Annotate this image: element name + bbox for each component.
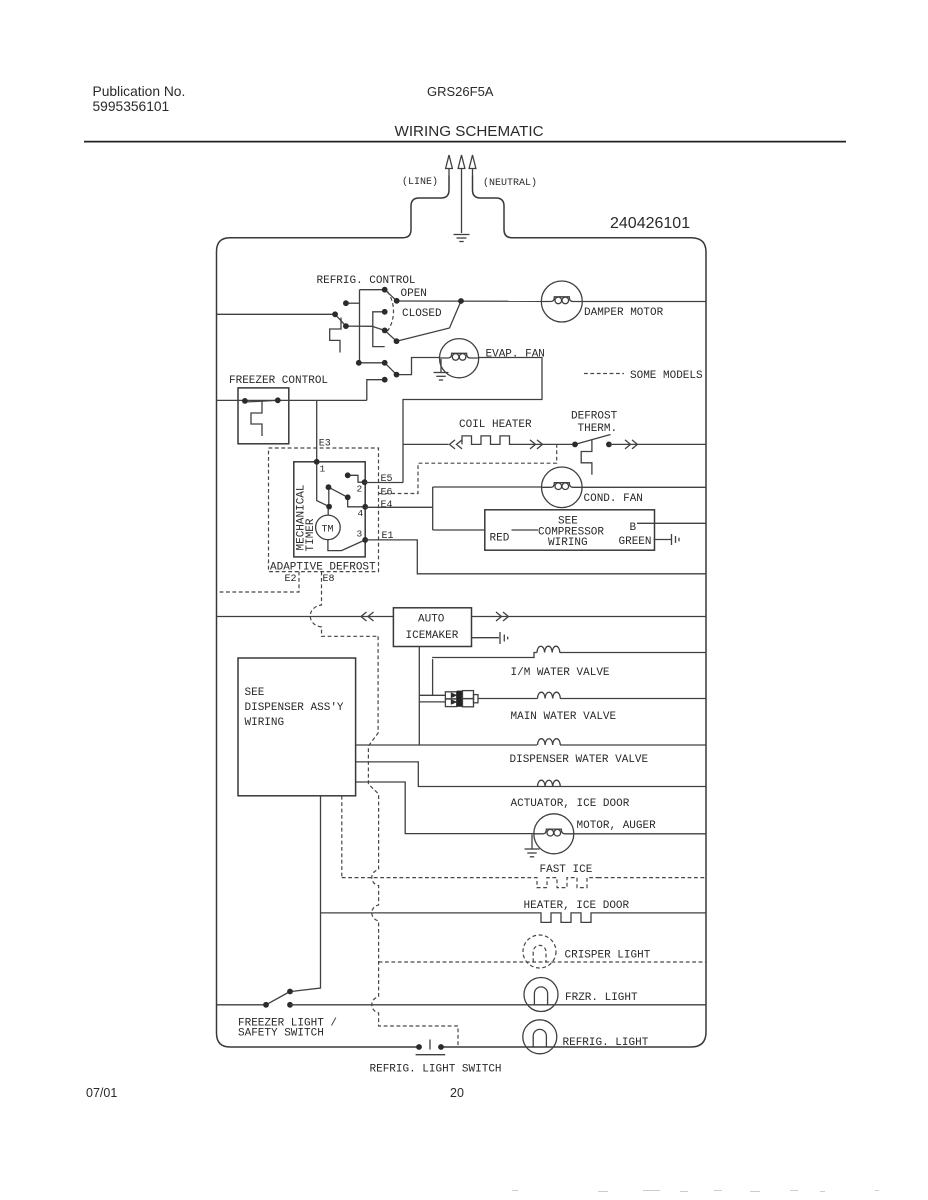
plug prong LINE (446, 155, 453, 176)
wire: timer pole from terminal 1 (317, 462, 329, 507)
motor: evaporator fan (440, 339, 479, 378)
wire: left column from dispenser box to safety switch (291, 796, 321, 992)
svg-text:ADAPTIVE DEFROST: ADAPTIVE DEFROST (270, 562, 376, 574)
wire: common to lower contact stub (359, 362, 385, 364)
wire: actuator to neutral (537, 786, 706, 788)
svg-text:GREEN: GREEN (619, 536, 652, 548)
svg-text:240426101: 240426101 (610, 215, 690, 232)
svg-text:OPEN: OPEN (401, 288, 427, 300)
svg-text:FREEZER CONTROL: FREEZER CONTROL (229, 375, 328, 387)
svg-text:MOTOR, AUGER: MOTOR, AUGER (577, 820, 657, 832)
wire: heater ice door bus (321, 912, 540, 914)
wire: freezer control bus (217, 399, 367, 401)
motor: condenser fan (542, 467, 583, 508)
wire: ground pin lead (461, 176, 463, 234)
svg-text:4: 4 (358, 508, 364, 519)
wire: I/M valve drop to connector (432, 659, 434, 695)
svg-text:SOME MODELS: SOME MODELS (630, 370, 703, 382)
wire: B compressor to neutral (637, 522, 706, 524)
svg-text:MAIN WATER VALVE: MAIN WATER VALVE (511, 711, 617, 723)
connector: water valve plug (445, 691, 478, 707)
svg-text:I/M WATER VALVE: I/M WATER VALVE (511, 667, 610, 679)
wire: dispenser valve to neutral (560, 744, 706, 746)
wire: arm to terminal 4 (348, 497, 366, 507)
wire: common top stub (360, 289, 385, 291)
wire: enclosure trunk left+top with plug notch (217, 176, 450, 1048)
svg-text:CRISPER LIGHT: CRISPER LIGHT (565, 950, 651, 962)
solenoid: I/M water valve (432, 646, 562, 657)
wire: refrig control contact row (346, 326, 385, 330)
ground: power cord earth ground (454, 235, 470, 242)
thermostat: freezer control box (238, 388, 289, 444)
svg-text:2: 2 (357, 484, 363, 495)
wire E5: terminal 2 to coil heater riser (365, 482, 403, 484)
node: defrost therm terminals (572, 442, 612, 448)
wire: enclosure trunk right+top with plug notch (441, 176, 706, 1048)
timer motor TM (316, 507, 366, 551)
switch arm: evap fan feed (385, 363, 397, 375)
svg-text:TM: TM (322, 525, 334, 536)
box: see compressor wiring (485, 510, 655, 550)
wire: upper contact stub (346, 302, 360, 304)
ground: icemaker (500, 632, 508, 644)
svg-text:07/01: 07/01 (86, 1086, 117, 1100)
svg-text:WIRING SCHEMATIC: WIRING SCHEMATIC (395, 123, 544, 140)
resistor: fast ice heater (dashed) (534, 878, 598, 888)
svg-text:REFRIG. LIGHT: REFRIG. LIGHT (563, 1037, 649, 1049)
svg-text:Publication No.: Publication No. (93, 84, 186, 99)
wire: connector to main water valve (478, 698, 536, 700)
svg-text:AUTO: AUTO (418, 614, 445, 626)
wire: damper motor to neutral bus (582, 301, 706, 303)
svg-text:DEFROST: DEFROST (571, 411, 618, 423)
wire: heater to neutral (599, 912, 706, 914)
wire E8 (dashed): with hop over icemaker feed (310, 572, 378, 637)
wire E4: terminal 4 to condenser fan / compressor (365, 487, 433, 530)
wire: lower contact to freezer-control bus (367, 380, 385, 401)
wire: evap fan return (403, 358, 542, 483)
svg-text:GRS26F5A: GRS26F5A (427, 84, 494, 99)
plug prong NEUTRAL (469, 155, 476, 176)
node: refrig control terminals (332, 287, 464, 383)
wire: I/M valve to neutral (562, 652, 706, 654)
wire: GREEN compressor ground lead (654, 539, 672, 541)
wire: defrost therm to neutral (609, 443, 706, 445)
wire: cond fan to neutral (582, 486, 706, 488)
connector chevrons defrost right (625, 440, 638, 449)
resistor: heater ice door (539, 913, 599, 923)
switch arm: refrig control input (335, 314, 346, 326)
wire: auger motor feed from dispenser box (356, 782, 534, 834)
solenoid: dispenser water valve (538, 739, 561, 745)
svg-text:(LINE): (LINE) (402, 176, 438, 188)
legend dashed sample (584, 373, 624, 375)
svg-text:SAFETY SWITCH: SAFETY SWITCH (238, 1028, 324, 1040)
wire: RED compressor feed (433, 529, 538, 531)
connector chevrons left (450, 440, 463, 449)
svg-text:DAMPER MOTOR: DAMPER MOTOR (584, 307, 664, 319)
cam arc (dashed) (388, 292, 394, 332)
wire E6 (dashed): some models defrost bypass (379, 445, 557, 494)
label AUTO ICEMAKER (406, 614, 459, 643)
connector chevrons icemaker right (496, 612, 509, 621)
wire: bus to timer terminal 1 (316, 400, 318, 461)
box: auto icemaker (393, 608, 471, 647)
solenoid: main water valve (536, 692, 560, 698)
svg-text:WIRING: WIRING (245, 717, 285, 729)
box: see dispenser ass'y wiring (238, 658, 356, 796)
svg-text:DISPENSER WATER VALVE: DISPENSER WATER VALVE (510, 754, 649, 766)
svg-text:THERM.: THERM. (578, 423, 618, 435)
wire: cond fan feed (433, 486, 542, 488)
wire: actuator feed from dispenser box (356, 762, 537, 787)
wire: main valve to neutral (560, 698, 706, 700)
ground: evap fan (434, 359, 449, 380)
solenoid: actuator ice door (538, 780, 561, 786)
svg-text:(NEUTRAL): (NEUTRAL) (483, 177, 537, 189)
svg-text:ICEMAKER: ICEMAKER (406, 630, 459, 642)
svg-text:TIMER: TIMER (305, 518, 317, 551)
node: freezer control terminals (242, 397, 281, 403)
svg-text:E8: E8 (323, 574, 335, 585)
plug prong center (ground pin) (458, 155, 465, 176)
svg-text:ACTUATOR, ICE DOOR: ACTUATOR, ICE DOOR (511, 798, 630, 810)
label FREEZER LIGHT / SAFETY SWITCH (238, 1018, 337, 1040)
node: safety switch terminals (263, 989, 293, 1008)
sensor capillary: defrost thermostat (581, 440, 592, 475)
wire: icemaker to neutral (472, 616, 707, 618)
wire: freezer light feed (217, 1004, 267, 1006)
wire: closed path diagonal to damper junction (397, 301, 462, 341)
label SEE DISPENSER ASS'Y WIRING (245, 687, 344, 729)
ground: auger motor (525, 835, 540, 857)
svg-text:FAST ICE: FAST ICE (540, 864, 593, 876)
switch arm: freezer light / safety switch (266, 992, 290, 1005)
svg-text:CLOSED: CLOSED (402, 308, 442, 320)
wire: damper feed with junction (397, 300, 542, 302)
svg-text:EVAP. FAN: EVAP. FAN (486, 349, 545, 361)
long dashed vertical: some-models harness (368, 636, 458, 1046)
svg-text:5995356101: 5995356101 (93, 99, 170, 114)
wire: refrig control common vertical (359, 290, 361, 363)
svg-text:3: 3 (357, 529, 363, 540)
motor: damper motor M1 (541, 281, 582, 322)
switch arm: to OPEN contact (385, 290, 397, 301)
switch arm: timer contact (329, 487, 348, 497)
wire: to defrost thermostat (520, 443, 575, 445)
svg-text:HEATER, ICE DOOR: HEATER, ICE DOOR (524, 900, 630, 912)
label SEE COMPRESSOR WIRING (538, 516, 604, 550)
lamp: refrigerator light (523, 1020, 557, 1054)
wire: CLOSED contact link (385, 330, 397, 341)
wire: crisper light bus (dashed) (379, 961, 706, 963)
sensor capillary: freezer control (251, 402, 262, 437)
wire: icemaker output down to connector and dispenser valve net (419, 647, 445, 746)
timer box: mechanical timer (294, 462, 365, 557)
wire: auger motor to neutral (574, 833, 706, 835)
svg-text:E2: E2 (285, 574, 297, 585)
node: timer terminals (314, 459, 368, 543)
svg-text:FRZR. LIGHT: FRZR. LIGHT (565, 992, 638, 1004)
svg-text:COND. FAN: COND. FAN (584, 493, 643, 505)
wire E2 (dashed): timer to line bus (218, 572, 299, 592)
svg-text:1: 1 (320, 464, 326, 475)
ground: compressor chassis (672, 534, 680, 545)
svg-text:RED: RED (490, 533, 510, 545)
wire: to evap fan (397, 358, 440, 375)
switch: refrig light switch (416, 1040, 446, 1055)
svg-text:REFRIG. CONTROL: REFRIG. CONTROL (317, 275, 416, 287)
wire: dispenser valve feed (356, 744, 537, 746)
svg-text:20: 20 (450, 1086, 464, 1100)
wire: icemaker feed from line bus (217, 616, 394, 618)
connector chevrons icemaker left (361, 612, 374, 621)
switch arm: freezer control (246, 400, 278, 402)
svg-text:COIL HEATER: COIL HEATER (459, 419, 532, 431)
wire: timer pole stem (328, 487, 330, 506)
svg-text:B: B (630, 522, 637, 534)
lamp: freezer light (524, 978, 558, 1012)
label DEFROST THERM. (571, 411, 618, 436)
label MECHANICAL TIMER (vertical) (296, 484, 318, 551)
motor: auger motor (534, 814, 574, 854)
svg-text:SEE: SEE (245, 687, 265, 699)
wire: freezer light bus (290, 1004, 706, 1006)
svg-text:E4: E4 (381, 500, 393, 511)
svg-text:REFRIG. LIGHT SWITCH: REFRIG. LIGHT SWITCH (370, 1064, 502, 1076)
connector chevrons right (530, 440, 543, 449)
wire: dispenser box to fast ice (dashed drop) (341, 796, 343, 878)
svg-text:DISPENSER ASS'Y: DISPENSER ASS'Y (245, 702, 344, 714)
svg-text:WIRING: WIRING (548, 537, 588, 549)
wire: contact to terminal 2 (348, 475, 365, 482)
wire: line feed to refrig control (217, 313, 336, 315)
svg-text:E5: E5 (381, 474, 393, 485)
lamp: crisper light (dashed, some models) (523, 935, 556, 968)
title: Publication No. (93, 84, 186, 114)
wire: fast ice bus (dashed) (342, 877, 705, 879)
resistor: coil heater (462, 436, 520, 445)
dashed box: adaptive defrost (269, 448, 379, 572)
header rule (84, 141, 846, 143)
sensor capillary: refrig control (330, 318, 341, 353)
switch arm: defrost thermostat (575, 435, 611, 445)
wire: inner contact vertical (373, 312, 385, 347)
scanner artifact strip (512, 1191, 879, 1192)
wire: coil heater feed (403, 443, 449, 445)
wire: icemaker ground lead (472, 637, 500, 639)
wire E1: terminal 3 to neutral return (365, 540, 706, 574)
